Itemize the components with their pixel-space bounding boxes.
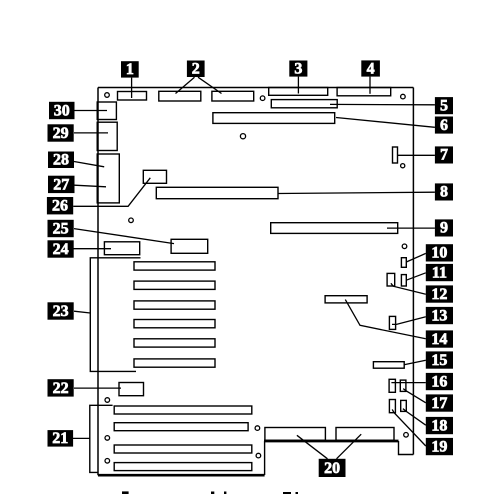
- leader 27: [75, 185, 107, 187]
- component 18 right: [401, 400, 407, 411]
- PCI slot 3: [114, 445, 252, 453]
- leader 20a: [297, 435, 328, 459]
- svg-text:21: 21: [52, 430, 68, 447]
- connector 2b: [212, 91, 254, 101]
- leader 23: [74, 311, 90, 313]
- callout 8: [435, 183, 453, 200]
- component 26: [143, 170, 166, 183]
- callout 15: [426, 351, 453, 368]
- leader 6: [336, 118, 435, 128]
- svg-text:18: 18: [431, 417, 447, 434]
- leader 5: [330, 103, 435, 105]
- svg-text:17: 17: [431, 395, 447, 412]
- leader 15: [404, 360, 426, 365]
- callout 13: [426, 307, 453, 324]
- connector 9: [271, 223, 398, 234]
- leader 14: [345, 300, 426, 339]
- leader 18: [403, 409, 426, 426]
- leader 10: [406, 253, 426, 262]
- svg-text:25: 25: [53, 220, 69, 237]
- connector 27-28 (left edge): [97, 154, 119, 203]
- component 16 left: [389, 379, 395, 392]
- svg-text:24: 24: [53, 241, 69, 258]
- callout 5: [435, 97, 453, 114]
- callout 24: [48, 240, 74, 258]
- connector 20a: [265, 428, 326, 441]
- svg-text:22: 22: [53, 380, 69, 397]
- callout 22: [48, 379, 74, 397]
- callout 19: [426, 438, 453, 455]
- svg-text:28: 28: [53, 152, 69, 169]
- component 18 left: [389, 400, 395, 413]
- DIMM slot 6: [134, 359, 215, 367]
- connector 8: [156, 187, 278, 198]
- svg-text:9: 9: [440, 220, 448, 237]
- component 10: [401, 258, 406, 268]
- leader 16: [391, 382, 425, 384]
- connector 6: [213, 113, 335, 124]
- leader 3: [297, 77, 299, 94]
- callout 21: [48, 430, 74, 447]
- callout 26: [47, 197, 73, 215]
- component 11: [401, 275, 406, 286]
- callout 3: [289, 60, 307, 77]
- callout 18: [426, 417, 453, 434]
- callout 25: [48, 220, 74, 238]
- leader 21: [73, 437, 90, 439]
- svg-text:26: 26: [52, 198, 68, 215]
- board outline: [98, 88, 413, 476]
- callout 16: [426, 373, 453, 390]
- svg-text:2: 2: [192, 61, 200, 78]
- leader 30: [75, 110, 108, 112]
- callout 20: [319, 459, 346, 477]
- leader 20b: [337, 434, 362, 459]
- callout 7: [435, 146, 453, 163]
- memory bracket 23: [90, 258, 140, 372]
- callout 23: [48, 302, 74, 320]
- svg-text:13: 13: [431, 307, 447, 324]
- svg-text:6: 6: [440, 117, 448, 134]
- callout 1: [121, 61, 139, 78]
- svg-text:14: 14: [431, 331, 447, 348]
- component 14: [325, 296, 367, 303]
- callout 29: [48, 124, 74, 142]
- leader 8: [278, 192, 435, 193]
- leader 24: [73, 248, 111, 250]
- connector 3: [269, 88, 328, 96]
- svg-text:30: 30: [54, 102, 70, 119]
- PCI slot 2: [114, 423, 248, 431]
- connector 29 (left edge): [97, 122, 117, 150]
- component 24: [104, 242, 139, 255]
- svg-text:10: 10: [431, 245, 447, 262]
- callout 2: [187, 61, 205, 78]
- callout 12: [426, 285, 453, 302]
- PCI bracket 21: [90, 405, 113, 472]
- leader 7: [398, 154, 435, 156]
- leader 12: [391, 283, 426, 294]
- svg-text:20: 20: [324, 460, 340, 477]
- callout 30: [49, 102, 75, 120]
- leader 26: [73, 178, 150, 207]
- callout 17: [426, 394, 453, 411]
- svg-text:29: 29: [53, 125, 69, 142]
- svg-text:23: 23: [53, 303, 69, 320]
- leader 1: [131, 78, 133, 98]
- connector 2a: [159, 91, 201, 101]
- leader 4: [369, 77, 371, 94]
- component 25: [171, 239, 208, 253]
- PCI slot 4: [114, 463, 252, 471]
- caption (clipped at bottom edge): [122, 491, 298, 494]
- component 22: [119, 383, 144, 396]
- svg-text:16: 16: [431, 373, 447, 390]
- leader 17: [403, 389, 426, 403]
- svg-text:27: 27: [53, 176, 69, 193]
- leader 13: [392, 317, 426, 325]
- callout 14: [426, 330, 453, 347]
- DIMM slot 1: [134, 262, 215, 270]
- leader 22: [74, 387, 121, 389]
- connector 30 (left edge): [97, 102, 116, 120]
- component 12: [387, 273, 395, 286]
- svg-text:1: 1: [126, 61, 134, 78]
- leader 2: [176, 77, 195, 93]
- connector 5: [271, 100, 337, 108]
- callout 27: [48, 176, 75, 194]
- callout 28: [48, 152, 74, 169]
- svg-text:11: 11: [432, 264, 447, 281]
- DIMM slot 4: [134, 320, 215, 328]
- DIMM slot 5: [134, 339, 215, 347]
- leader lines: [73, 77, 435, 459]
- PCI slot 1: [114, 406, 252, 414]
- component 16 right: [400, 380, 406, 391]
- component 7: [393, 147, 398, 163]
- leader 25: [74, 229, 174, 244]
- svg-text:19: 19: [431, 438, 447, 455]
- leader 28: [74, 162, 104, 167]
- connector 1 (top edge): [118, 92, 147, 101]
- svg-text:5: 5: [440, 97, 448, 114]
- component 15: [373, 362, 404, 369]
- DIMM slot 3: [134, 301, 215, 309]
- svg-text:3: 3: [294, 60, 302, 77]
- callout 6: [435, 117, 453, 134]
- callout 4: [361, 60, 380, 77]
- callout 11: [426, 264, 453, 281]
- leader 19: [392, 409, 426, 446]
- svg-text:15: 15: [431, 352, 447, 369]
- connector 4: [337, 88, 391, 96]
- svg-text:8: 8: [440, 184, 448, 201]
- component 13: [389, 316, 395, 329]
- leader 9: [387, 227, 435, 229]
- callout 9: [435, 219, 453, 236]
- leader 29: [74, 132, 108, 134]
- svg-text:12: 12: [431, 286, 447, 303]
- connector 20b: [336, 428, 394, 441]
- mounting holes: [105, 93, 409, 463]
- leader 11: [406, 273, 426, 280]
- DIMM slot 2: [134, 281, 215, 289]
- svg-text:7: 7: [440, 147, 448, 164]
- callout 10: [426, 244, 453, 261]
- svg-text:4: 4: [367, 60, 375, 77]
